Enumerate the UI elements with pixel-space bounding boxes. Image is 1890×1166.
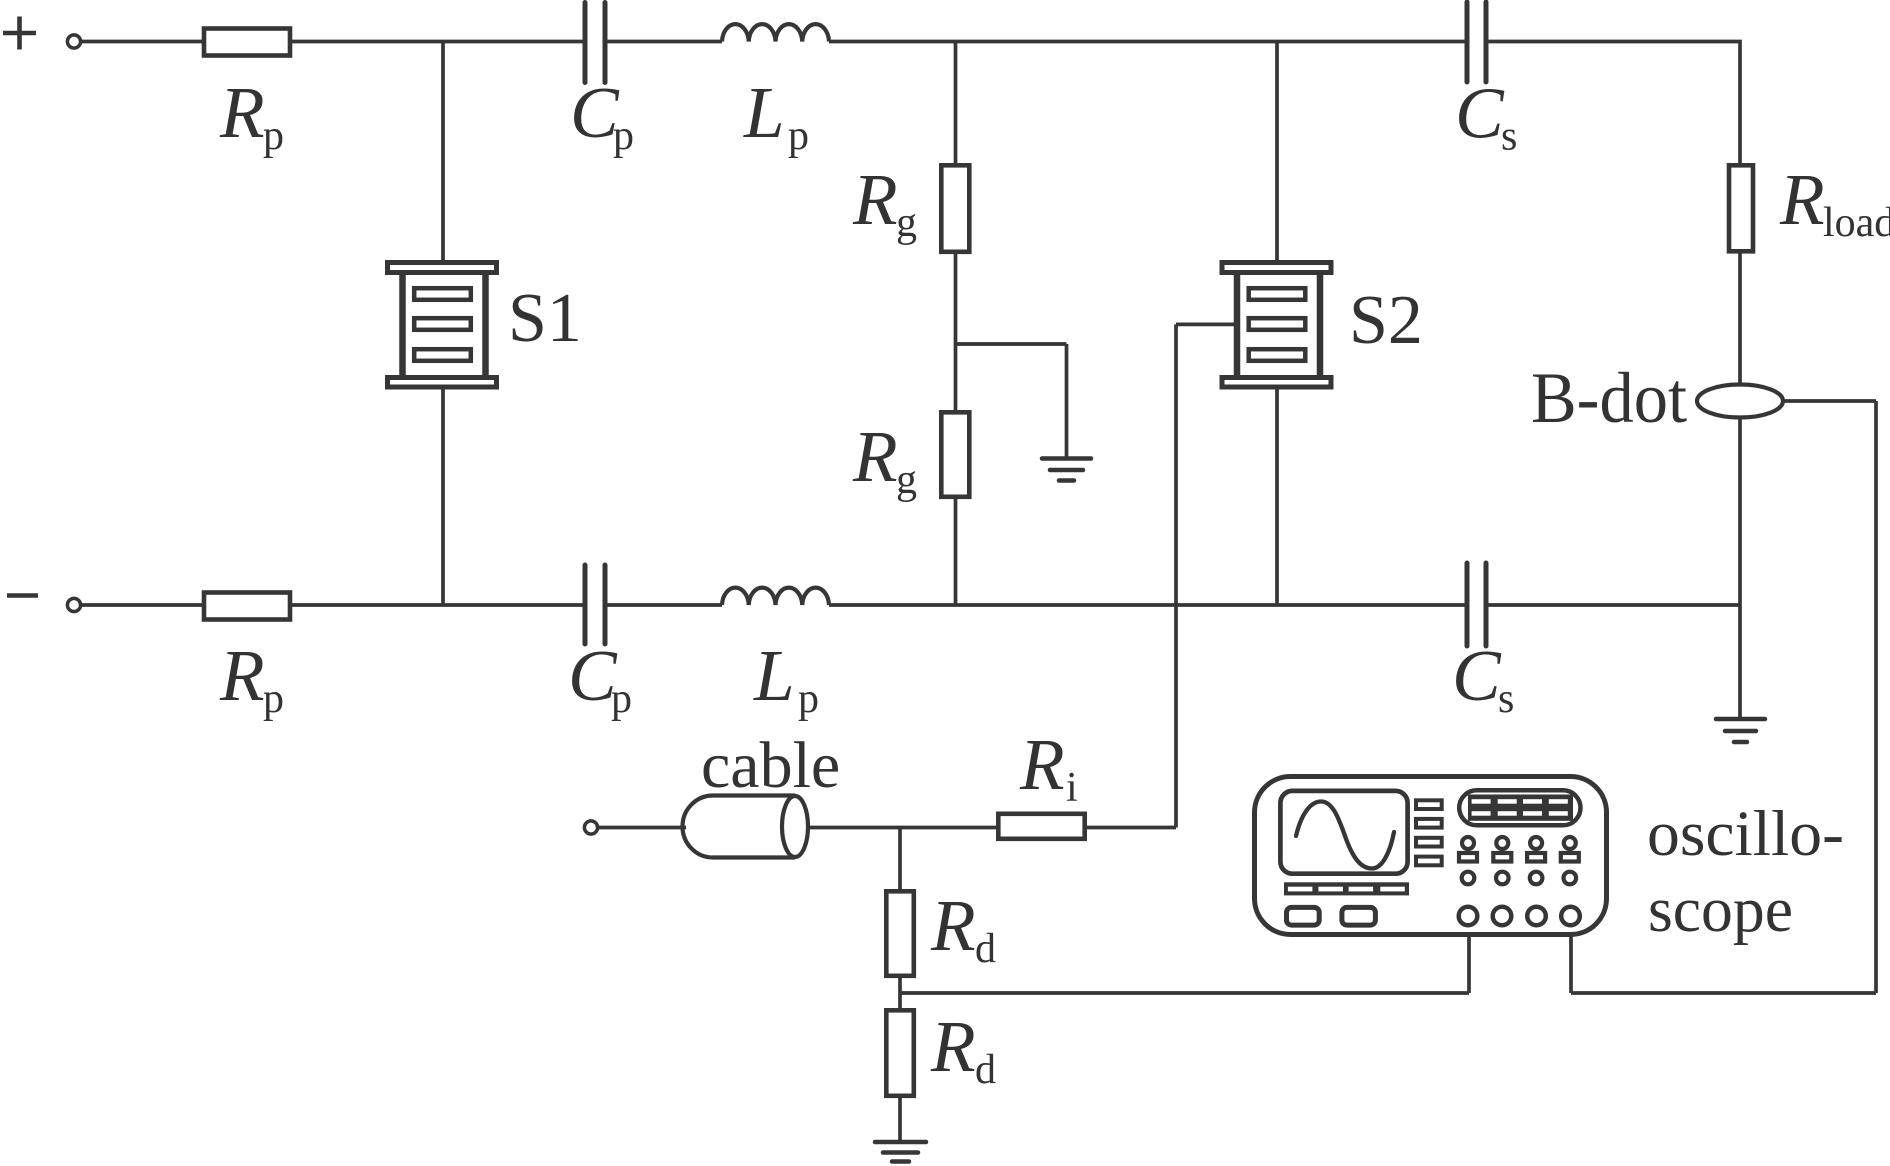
wire Rd2 to ground <box>898 1096 902 1142</box>
wire right column down <box>1874 401 1878 993</box>
svg-text:d: d <box>975 926 996 972</box>
resistor Rd1 <box>886 891 914 976</box>
capacitor Cp top <box>585 3 605 83</box>
ground middle <box>1042 459 1091 481</box>
wire S2 branch upper <box>1275 42 1279 261</box>
resistor Rd2 <box>886 1010 914 1096</box>
wire top rail Rp to Cp <box>290 40 583 44</box>
label Rg upper <box>852 159 917 246</box>
wire right column to scope <box>1571 991 1876 995</box>
resistor Rp bottom <box>204 593 290 620</box>
oscilloscope buttons <box>1287 907 1376 925</box>
svg-text:L: L <box>743 72 785 153</box>
svg-text:S2: S2 <box>1349 282 1423 359</box>
label Lp top <box>743 72 809 159</box>
svg-text:B-dot: B-dot <box>1531 358 1687 438</box>
wire ground branch vertical <box>1065 344 1069 457</box>
label Rp top <box>219 72 284 159</box>
label Rp bottom <box>219 635 284 722</box>
resistor Rg lower <box>941 412 969 497</box>
inductor Lp bottom <box>722 588 829 605</box>
switch S2 <box>1222 263 1331 388</box>
oscilloscope small knobs <box>1462 872 1576 885</box>
svg-text:g: g <box>896 457 917 503</box>
oscilloscope sine trace <box>1296 802 1394 869</box>
wire top rail from terminal to Rp <box>81 40 204 44</box>
svg-text:p: p <box>798 676 819 722</box>
wire top rail Cp to Lp <box>607 40 722 44</box>
terminal minus sign <box>7 593 38 598</box>
wire Rd junction to scope <box>900 991 1469 995</box>
ground bottom <box>875 1142 926 1162</box>
oscilloscope top connector panel <box>1459 790 1580 825</box>
svg-text:cable: cable <box>701 729 840 802</box>
svg-text:C: C <box>1455 73 1505 154</box>
svg-text:s: s <box>1501 114 1517 160</box>
svg-text:p: p <box>613 113 634 159</box>
svg-text:R: R <box>930 885 976 966</box>
capacitor Cs bottom <box>1467 563 1486 646</box>
inductor Lp top <box>722 24 829 41</box>
terminal circle bottom-left <box>67 598 80 611</box>
wire between Rg resistors <box>954 252 958 412</box>
label Rd1 <box>930 885 996 972</box>
label Cs top <box>1455 73 1517 160</box>
label Ri <box>1019 724 1078 811</box>
wire trigger horizontal to S2 <box>1176 323 1235 327</box>
wire top rail Lp to Cs <box>829 40 1465 44</box>
resistor Rg upper <box>941 165 969 252</box>
svg-text:R: R <box>1779 159 1825 240</box>
wire B-dot to bottom ground <box>1738 417 1742 719</box>
oscilloscope vent bar <box>1284 882 1409 895</box>
svg-text:p: p <box>263 113 284 159</box>
svg-text:s: s <box>1498 676 1514 722</box>
wire scope right connector <box>1569 926 1573 993</box>
B-dot probe ellipse <box>1697 385 1783 418</box>
resistor Rload <box>1729 165 1753 251</box>
svg-text:p: p <box>788 113 809 159</box>
wire S1 branch lower <box>441 389 445 605</box>
svg-text:R: R <box>852 159 898 240</box>
oscilloscope bnc connectors <box>1459 907 1580 926</box>
oscilloscope body <box>1255 777 1607 935</box>
capacitor Cs top <box>1467 2 1486 82</box>
switch S1 <box>388 263 497 388</box>
wire bottom rail from terminal to Rp <box>81 603 204 607</box>
resistor Rp top <box>204 29 290 56</box>
svg-text:R: R <box>1019 724 1065 805</box>
wire bottom rail Lp to Cs <box>829 603 1465 607</box>
wire ground branch horizontal <box>956 342 1067 346</box>
wire trigger vertical <box>1174 324 1178 827</box>
svg-text:S1: S1 <box>508 280 582 357</box>
wire bottom rail Rp to Cp <box>290 603 583 607</box>
svg-text:R: R <box>930 1006 976 1087</box>
svg-text:R: R <box>219 72 265 153</box>
wire Rg lower to bottom rail <box>954 497 958 605</box>
svg-text:R: R <box>219 635 265 716</box>
wire Rd1 to Rd2 <box>898 976 902 1010</box>
svg-text:g: g <box>896 200 917 246</box>
svg-text:p: p <box>263 676 284 722</box>
capacitor Cp bottom <box>585 565 605 644</box>
oscilloscope screen <box>1280 791 1407 874</box>
wire Rload to B-dot <box>1738 251 1742 385</box>
wire B-dot tap <box>1783 399 1876 403</box>
terminal plus sign <box>3 17 36 50</box>
label Rload <box>1779 159 1890 246</box>
svg-text:oscillo-: oscillo- <box>1647 798 1844 870</box>
wire cylinder to Ri <box>808 826 998 830</box>
oscilloscope menu buttons <box>1416 800 1442 865</box>
wire Rg branch upper <box>954 42 958 166</box>
label Cp top <box>570 72 634 159</box>
svg-text:load: load <box>1823 200 1890 246</box>
cable cylinder <box>683 796 809 858</box>
wire S2 branch lower <box>1275 389 1279 605</box>
wire S1 branch upper <box>441 42 445 261</box>
svg-text:R: R <box>852 416 898 497</box>
svg-text:scope: scope <box>1648 874 1793 946</box>
wire top rail Cs to right corner <box>1488 42 1740 166</box>
label Cs bottom <box>1452 635 1514 722</box>
wire junction to Rd1 <box>898 828 902 892</box>
oscilloscope probe icons <box>1459 837 1579 862</box>
svg-text:d: d <box>975 1047 996 1093</box>
label Cp bottom <box>568 635 632 722</box>
wire Ri to trigger corner <box>1085 826 1176 830</box>
resistor Ri <box>998 814 1084 839</box>
svg-text:i: i <box>1066 765 1078 811</box>
terminal circle top-left <box>67 35 80 48</box>
svg-text:L: L <box>753 635 795 716</box>
label Rg lower <box>852 416 917 503</box>
wire bottom rail Cp to Lp <box>607 603 722 607</box>
label Rd2 <box>930 1006 996 1093</box>
wire bottom rail Cs to right column <box>1488 603 1740 607</box>
wire cable terminal to cylinder <box>598 826 686 830</box>
wire scope left connector <box>1467 926 1471 993</box>
svg-text:p: p <box>611 676 632 722</box>
terminal circle cable <box>584 821 597 834</box>
ground right <box>1716 719 1765 742</box>
svg-text:C: C <box>1452 635 1502 716</box>
label Lp bottom <box>753 635 819 722</box>
